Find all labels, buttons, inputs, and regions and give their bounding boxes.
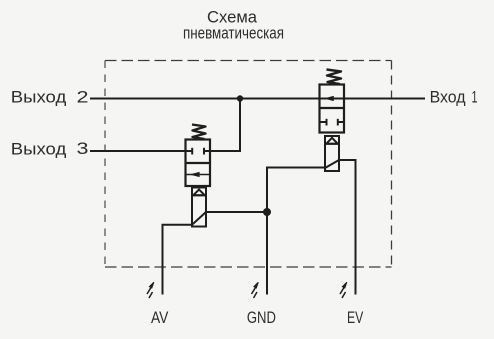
wire: GND to V1 actuator input — [267, 168, 325, 295]
break arrow at AV line — [147, 282, 154, 298]
dashed enclosure border — [105, 61, 392, 268]
node junction on GND line — [263, 208, 271, 216]
valve V1 blocked ports (bottom box) — [320, 119, 345, 126]
node junction on main line — [237, 95, 243, 101]
break arrow at EV line — [340, 282, 347, 298]
wire: V2 actuator output to GND junction — [206, 211, 267, 213]
valve V1 flow arrow (top box) — [326, 97, 333, 101]
wire: main line Выход 2 to Вход 1 — [90, 98, 425, 100]
valve V2 (left) spring — [192, 125, 206, 140]
wire: AV to V2 actuator input — [163, 225, 193, 295]
valve V2 blocked ports (top box) — [186, 148, 211, 155]
svg-text:Выход: Выход — [11, 88, 67, 107]
svg-text:Выход: Выход — [11, 139, 67, 158]
break arrow at GND line — [252, 282, 259, 298]
valve V1 (right) body — [320, 85, 345, 133]
svg-text:2: 2 — [77, 88, 89, 107]
valve V2 flow line with arrow (bottom box) — [186, 174, 210, 176]
valve V1 (right) spring — [327, 70, 342, 85]
wire: junction down to left valve — [210, 99, 240, 152]
valve V1 pilot actuator — [325, 136, 339, 171]
valve V2 (left) body — [186, 140, 211, 187]
svg-text:EV: EV — [347, 308, 364, 327]
wire: Выход 3 line — [90, 150, 186, 152]
svg-text:1: 1 — [472, 88, 478, 107]
svg-text:AV: AV — [151, 308, 169, 327]
valve V2 pilot actuator — [192, 188, 206, 227]
title: Схема пневматическая — [183, 8, 284, 43]
svg-text:Вход: Вход — [430, 88, 466, 107]
wire: V1 actuator output to EV — [339, 160, 356, 295]
svg-text:3: 3 — [77, 139, 89, 158]
svg-text:GND: GND — [247, 308, 276, 327]
svg-text:пневматическая: пневматическая — [183, 24, 284, 43]
